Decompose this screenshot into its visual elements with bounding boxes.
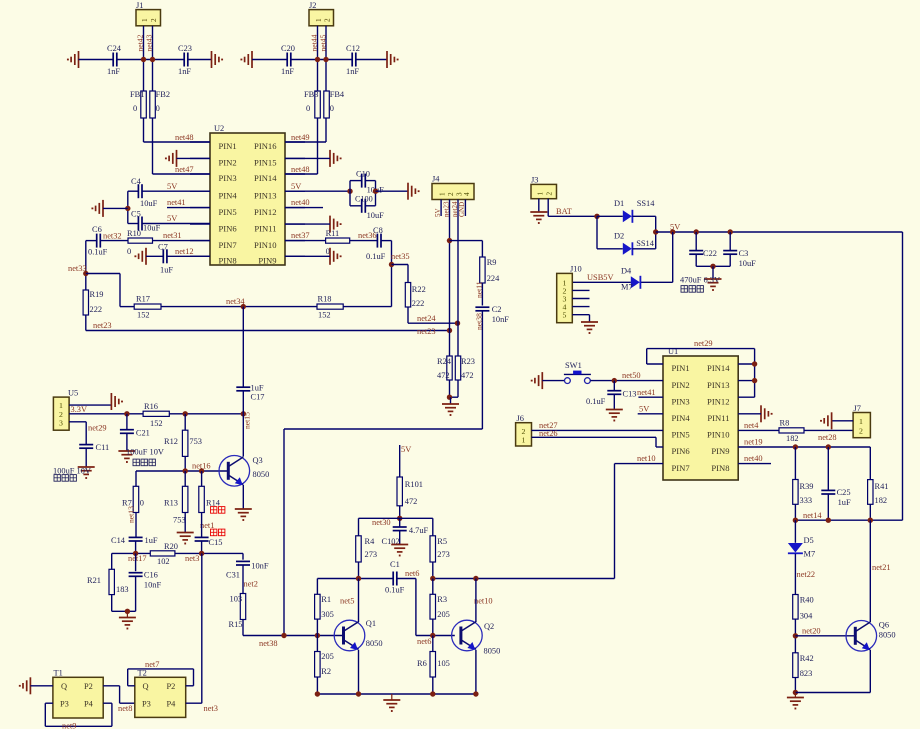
svg-text:222: 222 bbox=[412, 299, 425, 308]
junction bbox=[653, 229, 658, 234]
wire bbox=[349, 181, 351, 206]
wire bbox=[142, 190, 210, 192]
svg-text:C7: C7 bbox=[158, 243, 168, 252]
wire bbox=[450, 397, 452, 404]
junction bbox=[430, 576, 435, 581]
wire bbox=[252, 59, 287, 61]
svg-text:PIN12: PIN12 bbox=[254, 207, 276, 217]
wire bbox=[86, 273, 120, 275]
net label net48 bbox=[175, 133, 194, 142]
svg-text:C10: C10 bbox=[356, 170, 370, 179]
wire bbox=[135, 471, 137, 486]
svg-text:0.1uF: 0.1uF bbox=[586, 397, 606, 406]
svg-text:PIN2: PIN2 bbox=[219, 158, 237, 168]
svg-text:2: 2 bbox=[447, 192, 455, 196]
ground bbox=[330, 150, 341, 167]
svg-text:net47: net47 bbox=[175, 165, 194, 174]
net label net5 bbox=[340, 597, 354, 606]
svg-text:net43: net43 bbox=[145, 34, 154, 51]
svg-text:net33: net33 bbox=[68, 264, 87, 273]
svg-text:net29: net29 bbox=[694, 339, 713, 348]
wire bbox=[291, 59, 352, 61]
resistor R41 bbox=[868, 480, 889, 505]
svg-text:R41: R41 bbox=[875, 482, 889, 491]
wire bbox=[400, 518, 433, 536]
svg-text:P2: P2 bbox=[167, 682, 176, 691]
wire 5V stub bbox=[399, 445, 401, 477]
transistor Q6 bbox=[846, 621, 896, 652]
wire Q1 collector bbox=[358, 579, 360, 623]
svg-text:net31: net31 bbox=[163, 231, 182, 240]
svg-text:305: 305 bbox=[321, 610, 334, 619]
svg-text:2: 2 bbox=[324, 18, 332, 22]
resistor R22 bbox=[405, 283, 425, 309]
svg-text:472: 472 bbox=[437, 371, 450, 380]
wire bbox=[481, 241, 483, 257]
svg-text:net22: net22 bbox=[797, 570, 816, 579]
svg-text:net3: net3 bbox=[185, 554, 199, 563]
svg-text:USB5V: USB5V bbox=[587, 273, 614, 282]
wire Q3 emitter bbox=[242, 485, 244, 509]
wire net23 bbox=[86, 330, 450, 332]
junction bbox=[124, 411, 129, 416]
svg-text:R4: R4 bbox=[365, 537, 376, 546]
svg-text:1: 1 bbox=[522, 436, 526, 445]
svg-text:net20: net20 bbox=[802, 626, 821, 635]
svg-text:152: 152 bbox=[318, 311, 331, 320]
svg-text:8050: 8050 bbox=[879, 631, 896, 640]
resistor R8 bbox=[779, 419, 804, 444]
svg-text:823: 823 bbox=[800, 669, 813, 678]
net label net30 bbox=[372, 518, 391, 527]
junction bbox=[356, 576, 361, 581]
svg-text:152: 152 bbox=[137, 311, 150, 320]
junction bbox=[473, 691, 478, 696]
resistor R9 bbox=[480, 257, 500, 283]
net label net16 bbox=[192, 462, 211, 471]
wire net50 bbox=[590, 380, 663, 382]
net label net14 bbox=[803, 511, 822, 520]
svg-text:Q: Q bbox=[143, 682, 149, 691]
label do-not-place bbox=[211, 529, 225, 536]
wire bbox=[450, 396, 459, 398]
svg-text:Q6: Q6 bbox=[879, 621, 889, 630]
svg-text:183: 183 bbox=[116, 585, 129, 594]
capacitor C7 bbox=[158, 243, 173, 275]
wire bbox=[119, 274, 121, 307]
connector J7 bbox=[853, 404, 870, 438]
svg-text:net32: net32 bbox=[103, 232, 122, 241]
capacitor C12 bbox=[346, 44, 360, 76]
svg-text:net29: net29 bbox=[88, 424, 107, 433]
net label net7 bbox=[145, 660, 159, 669]
net label net2 bbox=[244, 580, 258, 589]
svg-text:R23: R23 bbox=[461, 357, 475, 366]
svg-text:222: 222 bbox=[90, 305, 103, 314]
svg-text:PIN10: PIN10 bbox=[254, 240, 276, 250]
svg-text:C16: C16 bbox=[144, 571, 158, 580]
wire bbox=[794, 447, 796, 480]
capacitor C11 bbox=[79, 443, 109, 467]
value label 100uF 10V bbox=[53, 467, 91, 476]
svg-text:R5: R5 bbox=[437, 537, 447, 546]
svg-text:net30: net30 bbox=[372, 518, 391, 527]
wire bbox=[167, 255, 210, 257]
svg-text:3.3V: 3.3V bbox=[71, 405, 88, 414]
wire bbox=[572, 289, 589, 291]
ground bbox=[387, 51, 398, 68]
svg-text:Q2: Q2 bbox=[484, 622, 494, 631]
junction bbox=[473, 576, 478, 581]
connector J6 bbox=[516, 414, 532, 446]
net label net10 bbox=[474, 597, 493, 606]
ground bbox=[530, 212, 547, 223]
svg-text:net6: net6 bbox=[417, 637, 431, 646]
svg-text:1: 1 bbox=[859, 417, 863, 426]
svg-text:753: 753 bbox=[173, 516, 186, 525]
capacitor C1 bbox=[385, 560, 405, 595]
svg-text:1uF: 1uF bbox=[251, 384, 264, 393]
junction bbox=[793, 518, 798, 523]
transformer T1 bbox=[53, 669, 103, 719]
capacitor C22 bbox=[689, 232, 717, 266]
wire bbox=[316, 619, 318, 635]
wire bbox=[201, 513, 203, 538]
svg-text:PIN7: PIN7 bbox=[219, 240, 238, 250]
svg-text:R42: R42 bbox=[800, 654, 814, 663]
svg-text:P2: P2 bbox=[84, 682, 93, 691]
ground bbox=[408, 183, 419, 200]
wire bbox=[184, 414, 186, 430]
wire bbox=[127, 191, 129, 223]
net label net3 bbox=[204, 704, 218, 713]
svg-text:FB3: FB3 bbox=[304, 90, 318, 99]
svg-text:182: 182 bbox=[786, 434, 799, 443]
wire bbox=[366, 180, 376, 182]
wire bbox=[640, 281, 672, 283]
wire bbox=[572, 298, 589, 300]
svg-text:net15: net15 bbox=[243, 412, 252, 429]
ground bbox=[166, 150, 177, 167]
svg-text:PIN1: PIN1 bbox=[672, 363, 690, 373]
svg-text:R101: R101 bbox=[405, 480, 423, 489]
capacitor C2 bbox=[475, 305, 509, 324]
junction bbox=[183, 468, 188, 473]
wire bbox=[672, 232, 674, 282]
value label aluminium cap bbox=[54, 475, 76, 482]
value label 100uF 10V bbox=[126, 448, 164, 457]
wire bbox=[201, 541, 203, 553]
wire bbox=[111, 553, 113, 569]
wire bbox=[175, 552, 243, 554]
svg-text:FB2: FB2 bbox=[156, 90, 170, 99]
svg-text:M7: M7 bbox=[621, 283, 633, 292]
resistor R11 bbox=[326, 229, 350, 256]
svg-text:R12: R12 bbox=[164, 437, 178, 446]
net label net33 bbox=[68, 264, 87, 273]
svg-text:1: 1 bbox=[439, 192, 447, 196]
svg-text:103: 103 bbox=[230, 595, 243, 604]
resistor R15 bbox=[229, 594, 246, 630]
resistor R20 bbox=[150, 542, 178, 566]
op-amp U1 bbox=[663, 347, 738, 480]
svg-text:T2: T2 bbox=[138, 669, 147, 678]
wire bbox=[450, 240, 483, 242]
svg-text:C2: C2 bbox=[492, 305, 502, 314]
wire bbox=[135, 513, 137, 538]
wire bbox=[112, 610, 136, 612]
svg-text:R9: R9 bbox=[487, 258, 497, 267]
wire bbox=[738, 363, 754, 365]
ground bbox=[330, 248, 341, 265]
wire bbox=[542, 380, 564, 382]
wire Q2 emitter bbox=[475, 650, 477, 694]
junction bbox=[315, 57, 320, 62]
wire bbox=[135, 541, 137, 553]
svg-text:PIN2: PIN2 bbox=[672, 380, 690, 390]
svg-text:net24: net24 bbox=[417, 314, 436, 323]
wire bbox=[242, 553, 244, 559]
net label net21 bbox=[872, 563, 891, 572]
junction bbox=[447, 395, 452, 400]
svg-text:C22: C22 bbox=[703, 249, 717, 258]
wire bbox=[572, 315, 589, 322]
svg-text:D4: D4 bbox=[621, 267, 632, 276]
svg-text:PIN7: PIN7 bbox=[672, 463, 691, 473]
wire Q6 collector net21 bbox=[869, 520, 871, 622]
svg-text:J2: J2 bbox=[309, 1, 316, 10]
wire bbox=[184, 471, 186, 486]
wire bbox=[285, 255, 330, 257]
net label net47 bbox=[175, 165, 194, 174]
resistor R1 bbox=[315, 579, 334, 620]
junction bbox=[125, 206, 130, 211]
capacitor C17 wire bbox=[242, 307, 244, 388]
wire bbox=[795, 692, 870, 694]
svg-text:J4: J4 bbox=[432, 175, 440, 184]
wire net16 bbox=[136, 470, 228, 472]
wire bbox=[188, 59, 212, 61]
capacitor C25 bbox=[821, 447, 851, 520]
svg-text:PIN5: PIN5 bbox=[672, 430, 690, 440]
ground bbox=[78, 467, 95, 478]
svg-text:PIN10: PIN10 bbox=[707, 430, 729, 440]
ground bbox=[20, 677, 31, 694]
svg-text:10nF: 10nF bbox=[492, 315, 510, 324]
wire bbox=[638, 396, 663, 398]
junction bbox=[397, 516, 402, 521]
svg-text:333: 333 bbox=[800, 496, 813, 505]
resistor R3 bbox=[430, 579, 450, 620]
ferrite bead FB1 bbox=[130, 90, 146, 118]
op-amp U2 bbox=[190, 124, 305, 266]
svg-text:PIN8: PIN8 bbox=[219, 256, 237, 266]
capacitor C24 bbox=[107, 44, 122, 76]
svg-text:P3: P3 bbox=[60, 700, 69, 709]
svg-text:1: 1 bbox=[315, 18, 323, 22]
svg-text:8050: 8050 bbox=[366, 639, 383, 648]
wire BAT bbox=[548, 215, 597, 217]
svg-text:1uF: 1uF bbox=[838, 498, 851, 507]
svg-text:net49: net49 bbox=[291, 133, 310, 142]
svg-text:0: 0 bbox=[133, 104, 137, 113]
svg-text:C25: C25 bbox=[837, 488, 851, 497]
junction bbox=[125, 609, 130, 614]
junction bbox=[389, 262, 394, 267]
net label net11 bbox=[475, 281, 484, 298]
svg-text:U2: U2 bbox=[214, 124, 224, 133]
svg-text:C5: C5 bbox=[131, 210, 141, 219]
svg-text:R11: R11 bbox=[326, 229, 340, 238]
net label net40 bbox=[744, 454, 763, 463]
net label net50 bbox=[622, 371, 641, 380]
svg-text:C1: C1 bbox=[390, 560, 400, 569]
ground bbox=[212, 51, 223, 68]
wire net19 bbox=[738, 446, 870, 448]
svg-text:152: 152 bbox=[150, 419, 163, 428]
wire net40 stub bbox=[738, 463, 771, 465]
wire net38 row bbox=[243, 635, 344, 637]
svg-text:D5: D5 bbox=[804, 536, 814, 545]
wire pin4 GND bbox=[464, 200, 466, 217]
svg-text:8050: 8050 bbox=[253, 470, 270, 479]
resistor R101 bbox=[397, 477, 423, 506]
svg-text:PIN13: PIN13 bbox=[707, 380, 729, 390]
svg-text:470uF 6.3V: 470uF 6.3V bbox=[680, 276, 720, 285]
junction bbox=[183, 411, 188, 416]
svg-text:C8: C8 bbox=[373, 226, 383, 235]
wire bbox=[146, 255, 163, 257]
svg-text:0: 0 bbox=[326, 247, 330, 256]
power label 5V bbox=[639, 405, 649, 414]
junction bbox=[281, 633, 286, 638]
wire bbox=[804, 429, 853, 431]
svg-text:PIN15: PIN15 bbox=[254, 158, 276, 168]
svg-text:182: 182 bbox=[875, 496, 888, 505]
svg-text:472: 472 bbox=[461, 371, 474, 380]
svg-text:0: 0 bbox=[140, 499, 144, 508]
net label net24 bbox=[417, 314, 436, 323]
junction bbox=[710, 264, 715, 269]
svg-text:SS14: SS14 bbox=[636, 239, 655, 248]
value label aluminium cap bbox=[681, 286, 703, 293]
ground bbox=[118, 451, 135, 462]
label do-not-place bbox=[211, 507, 225, 514]
net label net45 bbox=[319, 34, 328, 51]
svg-text:PIN14: PIN14 bbox=[707, 363, 730, 373]
junction bbox=[315, 633, 320, 638]
junction bbox=[150, 57, 155, 62]
wire net26 bbox=[532, 437, 664, 447]
ground bbox=[241, 51, 252, 68]
ground bbox=[92, 200, 103, 217]
svg-text:Q1: Q1 bbox=[366, 619, 376, 628]
wire bbox=[103, 207, 128, 209]
junction bbox=[868, 518, 873, 523]
svg-text:R3: R3 bbox=[437, 595, 447, 604]
svg-text:PIN4: PIN4 bbox=[672, 413, 691, 423]
svg-text:R8: R8 bbox=[780, 419, 790, 428]
wire bbox=[30, 685, 53, 687]
net label net49 bbox=[291, 133, 310, 142]
switch SW1 bbox=[564, 361, 591, 384]
svg-text:D1: D1 bbox=[614, 199, 624, 208]
wire bbox=[376, 190, 409, 192]
ground bbox=[581, 322, 598, 333]
svg-text:PIN5: PIN5 bbox=[219, 207, 237, 217]
wire bbox=[128, 223, 139, 225]
wire bbox=[366, 205, 376, 207]
svg-text:753: 753 bbox=[189, 437, 202, 446]
net label net17 bbox=[128, 554, 147, 563]
svg-text:10uF: 10uF bbox=[143, 224, 161, 233]
power label 5V bbox=[167, 182, 177, 191]
wire R16 row bbox=[69, 413, 143, 415]
svg-text:1nF: 1nF bbox=[178, 67, 191, 76]
wire net8 bbox=[103, 686, 135, 703]
svg-text:1uF: 1uF bbox=[145, 536, 158, 545]
wire net4 bbox=[738, 429, 779, 431]
svg-text:C21: C21 bbox=[136, 428, 150, 437]
svg-text:PIN8: PIN8 bbox=[711, 463, 729, 473]
junction bbox=[133, 551, 138, 556]
resistor R19 bbox=[83, 290, 103, 315]
net label net9 bbox=[62, 722, 76, 729]
ground bbox=[391, 545, 408, 556]
resistor R5 bbox=[430, 536, 450, 562]
svg-text:R40: R40 bbox=[800, 596, 814, 605]
svg-text:10uF: 10uF bbox=[367, 211, 385, 220]
junction bbox=[356, 691, 361, 696]
svg-text:net16: net16 bbox=[192, 462, 211, 471]
svg-text:net35: net35 bbox=[391, 252, 410, 261]
svg-text:J7: J7 bbox=[854, 404, 861, 413]
ground bbox=[383, 694, 400, 711]
power label 5V bbox=[401, 445, 411, 454]
resistor R7 bbox=[122, 486, 144, 512]
resistor R14 bbox=[199, 486, 221, 512]
svg-text:net40: net40 bbox=[291, 198, 310, 207]
ground bbox=[68, 51, 79, 68]
net label net31 bbox=[163, 231, 182, 240]
wire bbox=[869, 447, 871, 480]
svg-text:102: 102 bbox=[157, 557, 170, 566]
svg-text:2: 2 bbox=[150, 18, 158, 22]
wire net34 bbox=[161, 306, 317, 308]
net label net44 bbox=[310, 34, 319, 51]
wire bbox=[144, 118, 211, 142]
ground bbox=[606, 410, 623, 421]
junction bbox=[241, 304, 246, 309]
svg-text:R2: R2 bbox=[321, 667, 331, 676]
svg-text:net41: net41 bbox=[637, 388, 656, 397]
wire bbox=[184, 513, 186, 533]
resistor R17 bbox=[134, 295, 161, 320]
capacitor C17 bbox=[236, 384, 264, 414]
junction bbox=[455, 321, 460, 326]
svg-text:100uF 10V: 100uF 10V bbox=[126, 448, 164, 457]
junction bbox=[315, 691, 320, 696]
svg-text:PIN9: PIN9 bbox=[258, 256, 276, 266]
svg-text:net14: net14 bbox=[803, 511, 822, 520]
net label 5V bbox=[434, 208, 442, 217]
net label net10 bbox=[637, 454, 656, 463]
transistor Q3 bbox=[219, 456, 269, 487]
ferrite bead FB3 bbox=[304, 90, 320, 118]
capacitor C21 bbox=[120, 414, 150, 451]
resistor R10 bbox=[127, 229, 153, 256]
wire bbox=[350, 205, 361, 207]
